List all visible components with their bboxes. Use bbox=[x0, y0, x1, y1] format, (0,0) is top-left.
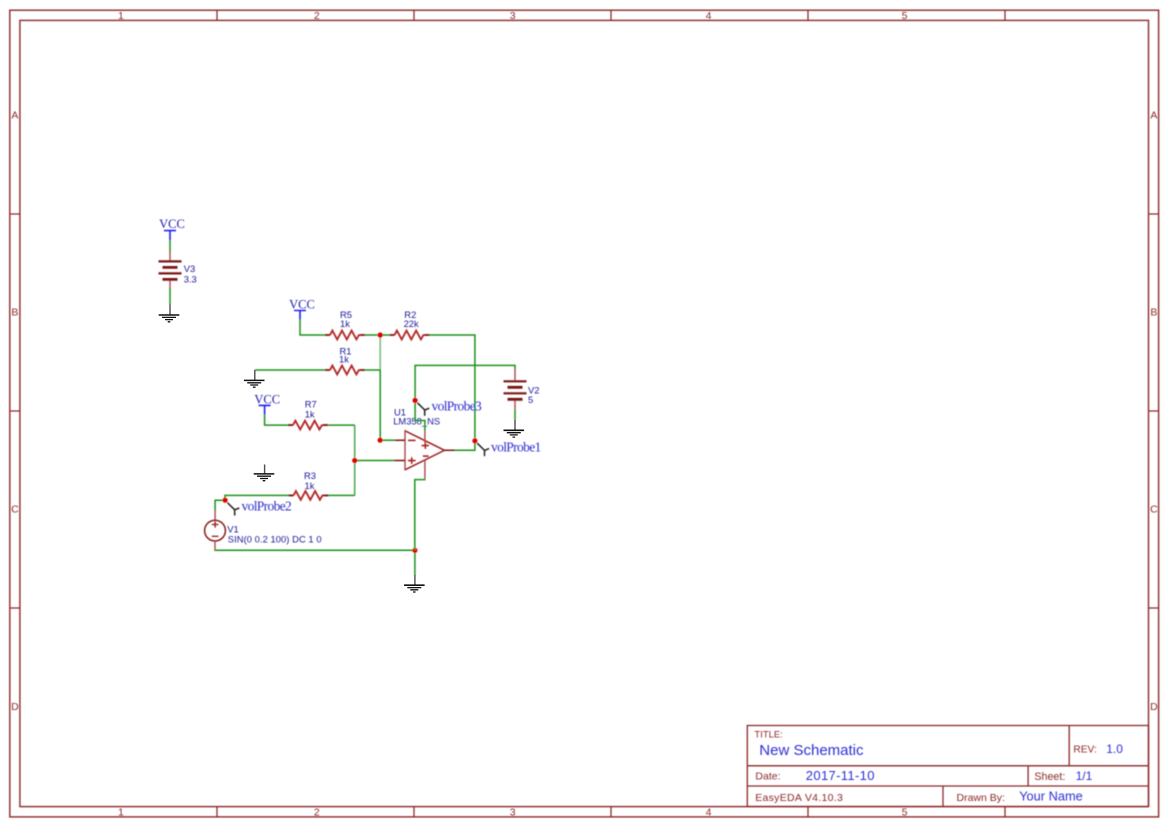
wire VCC to V3 bbox=[169, 240, 171, 252]
svg-text:2: 2 bbox=[314, 10, 320, 22]
svg-text:Drawn By:: Drawn By: bbox=[957, 792, 1005, 804]
ground (R1) bbox=[244, 370, 265, 387]
ground (main) bbox=[404, 575, 425, 592]
svg-text:volProbe3: volProbe3 bbox=[432, 399, 483, 414]
wire R3 left to volProbe2 node bbox=[215, 495, 289, 510]
svg-text:volProbe2: volProbe2 bbox=[242, 499, 292, 514]
junction node (volProbe2) bbox=[223, 498, 228, 503]
svg-text:5: 5 bbox=[902, 10, 908, 22]
junction node (volProbe3) bbox=[413, 398, 418, 403]
svg-text:3: 3 bbox=[510, 10, 516, 22]
wire -in junction to pin bbox=[380, 439, 395, 441]
wire R5 to node bbox=[365, 334, 390, 336]
svg-text:B: B bbox=[1150, 307, 1157, 319]
frame column ticks top bbox=[217, 10, 1005, 20]
ground (floating) bbox=[254, 465, 275, 481]
svg-text:1: 1 bbox=[118, 10, 124, 22]
wire V1 minus to ground junction bbox=[215, 549, 415, 552]
wire R2 to output net bbox=[429, 335, 475, 450]
svg-text:C: C bbox=[1150, 504, 1158, 516]
svg-text:EasyEDA V4.10.3: EasyEDA V4.10.3 bbox=[755, 792, 843, 804]
svg-text:1: 1 bbox=[118, 807, 124, 819]
svg-text:4: 4 bbox=[706, 807, 712, 819]
ground (V3) bbox=[159, 304, 180, 321]
frame row ticks right bbox=[1149, 214, 1159, 608]
svg-text:4: 4 bbox=[706, 10, 712, 22]
junction node (-in) bbox=[378, 438, 383, 443]
wire V3 to ground bbox=[169, 288, 171, 304]
resistor R1 bbox=[325, 366, 365, 375]
title block border bbox=[747, 726, 1148, 807]
wire VCC to R7 bbox=[265, 414, 289, 425]
frame column numbers bottom bbox=[118, 807, 908, 819]
svg-text:Sheet:: Sheet: bbox=[1034, 771, 1065, 783]
wire probe3 node up and across to V2 bbox=[415, 365, 515, 400]
svg-text:1k: 1k bbox=[305, 480, 315, 491]
svg-text:D: D bbox=[1150, 701, 1158, 713]
svg-text:TITLE:: TITLE: bbox=[754, 729, 783, 740]
svg-text:V3: V3 bbox=[184, 263, 195, 274]
probe volProbe3 bbox=[417, 403, 429, 416]
svg-text:D: D bbox=[11, 701, 19, 713]
svg-text:VCC: VCC bbox=[159, 217, 185, 231]
power flag VCC (V3 branch) bbox=[164, 231, 176, 241]
svg-text:New Schematic: New Schematic bbox=[759, 742, 864, 759]
probe volProbe2 bbox=[227, 503, 239, 516]
wire junction to +in bbox=[355, 460, 395, 462]
resistor R3 bbox=[289, 491, 329, 500]
wire vertical to -in junction bbox=[379, 370, 381, 440]
svg-text:VCC: VCC bbox=[289, 298, 315, 312]
wire V- power to ground net bbox=[415, 479, 425, 550]
battery V3 bbox=[159, 251, 182, 290]
svg-text:REV:: REV: bbox=[1073, 744, 1096, 755]
wire R3 right to junction vertical bbox=[328, 494, 354, 496]
power flag VCC (R5 branch) bbox=[294, 311, 306, 320]
wire R7 to +in junction bbox=[328, 424, 355, 426]
resistor R5 bbox=[325, 331, 365, 340]
svg-text:1/1: 1/1 bbox=[1076, 769, 1093, 783]
svg-text:1.0: 1.0 bbox=[1106, 742, 1123, 756]
op-amp U1 bbox=[395, 430, 455, 479]
frame row letters right bbox=[1150, 109, 1158, 713]
ground (V2) bbox=[504, 420, 525, 437]
resistor R2 bbox=[390, 331, 430, 340]
wire V+ power to probe3 node bbox=[415, 400, 425, 431]
svg-text:1k: 1k bbox=[305, 409, 315, 420]
wire junction to main ground bbox=[414, 550, 416, 575]
svg-text:Date:: Date: bbox=[755, 771, 780, 783]
junction node (output/volProbe1) bbox=[472, 438, 477, 443]
wire VCC to R5 bbox=[300, 319, 325, 335]
svg-text:A: A bbox=[1150, 109, 1157, 121]
frame column numbers top bbox=[118, 10, 908, 22]
wire node to inverting input (vertical, upper faded) bbox=[379, 336, 381, 370]
svg-text:1k: 1k bbox=[339, 354, 349, 365]
voltage source V1 bbox=[205, 510, 226, 550]
svg-text:VCC: VCC bbox=[254, 393, 280, 407]
svg-text:1k: 1k bbox=[340, 318, 350, 329]
svg-text:C: C bbox=[11, 504, 19, 516]
wire R1 to vertical bbox=[365, 369, 380, 371]
junction node (R5/R2) bbox=[378, 332, 383, 337]
svg-text:3.3: 3.3 bbox=[184, 274, 197, 285]
svg-text:SIN(0 0.2 100) DC 1 0: SIN(0 0.2 100) DC 1 0 bbox=[228, 534, 322, 545]
svg-text:22k: 22k bbox=[404, 318, 419, 329]
svg-text:3: 3 bbox=[510, 807, 516, 819]
frame row letters left bbox=[11, 109, 19, 713]
svg-text:5: 5 bbox=[528, 394, 533, 405]
probe volProbe1 bbox=[477, 443, 489, 456]
junction node (+in) bbox=[352, 458, 357, 463]
resistor R7 bbox=[288, 421, 328, 430]
svg-text:B: B bbox=[11, 307, 18, 319]
svg-text:2: 2 bbox=[314, 807, 320, 819]
wire ground to R1 bbox=[255, 369, 325, 371]
op-amp pins bbox=[395, 440, 455, 460]
junction node (main ground) bbox=[412, 548, 417, 553]
power flag VCC (R7 branch) bbox=[259, 405, 271, 414]
battery V2 bbox=[504, 369, 527, 410]
svg-text:Your Name: Your Name bbox=[1019, 788, 1083, 803]
frame column ticks bottom bbox=[217, 807, 1005, 817]
wire V2 to ground bbox=[514, 410, 516, 421]
svg-text:5: 5 bbox=[902, 807, 908, 819]
svg-text:A: A bbox=[11, 109, 18, 121]
svg-text:volProbe1: volProbe1 bbox=[491, 439, 541, 454]
frame row ticks left bbox=[10, 214, 20, 608]
svg-text:2017-11-10: 2017-11-10 bbox=[806, 768, 875, 783]
